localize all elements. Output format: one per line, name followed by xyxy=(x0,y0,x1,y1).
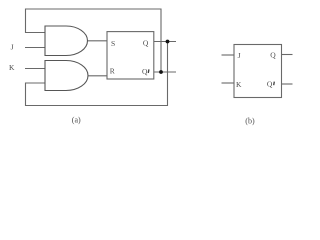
svg-text:(a): (a) xyxy=(72,115,81,124)
svg-text:S: S xyxy=(111,39,115,48)
svg-text:Q: Q xyxy=(270,51,276,60)
svg-text:K: K xyxy=(236,80,242,89)
svg-text:K: K xyxy=(9,63,15,72)
svg-text:Q: Q xyxy=(143,38,149,47)
svg-text:R: R xyxy=(110,66,115,75)
svg-text:J: J xyxy=(238,51,241,60)
svg-text:J: J xyxy=(11,42,14,51)
svg-text:Q: Q xyxy=(142,67,148,76)
svg-text:(b): (b) xyxy=(245,116,255,125)
svg-text:Q: Q xyxy=(267,80,273,89)
